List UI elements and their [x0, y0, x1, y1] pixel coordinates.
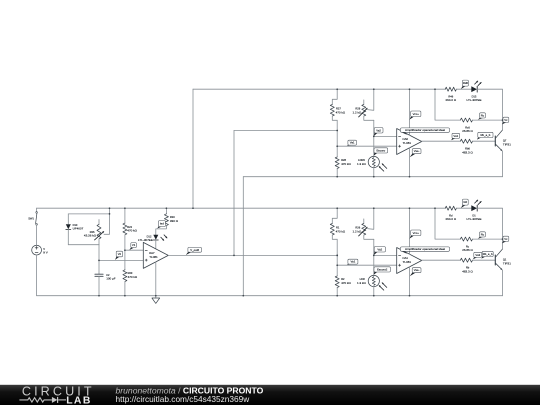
op-amp OA7 TL081: [143, 242, 168, 268]
svg-text:Amplificador operacional ideal: Amplificador operacional ideal: [405, 128, 445, 132]
wire Va2 to inverting input: [374, 135, 397, 137]
svg-text:483.3 Ω: 483.3 Ω: [462, 270, 473, 274]
wire Vcc drop: [409, 208, 411, 254]
diode D10 UF4007: [67, 214, 69, 224]
svg-text:Vo1: Vo1: [453, 134, 458, 138]
photoresistor LDR6 1.3k: [368, 156, 379, 167]
node flag Vcc+: [410, 116, 414, 119]
svg-text:Rb_a_b: Rb_a_b: [483, 252, 493, 256]
logo resistor-diode squiggle: [19, 398, 52, 402]
node flag V_out6: [186, 252, 191, 255]
resistor R22 470k: [124, 208, 126, 223]
svg-text:Va1: Va1: [350, 141, 355, 145]
node flag Rb_a_b: [481, 256, 485, 258]
wire V_out feed vertical x=235: [233, 131, 235, 256]
resistor R20 330: [165, 208, 167, 214]
svg-text:TIP31: TIP31: [503, 143, 511, 147]
node flag Rc: [478, 118, 483, 120]
svg-text:Amplificador operacional ideal: Amplificador operacional ideal: [405, 247, 445, 251]
wire Va1 to non-inverting input: [337, 264, 397, 266]
svg-text:9 V: 9 V: [43, 250, 48, 254]
wire Va1 vertical: [336, 120, 338, 157]
svg-text:264.0 Ω: 264.0 Ω: [446, 98, 457, 102]
wire R20 to D12: [156, 226, 167, 235]
LED D13 LTL-307EE: [471, 86, 477, 92]
svg-text:26.86 Ω: 26.86 Ω: [462, 129, 473, 133]
svg-text:TL081: TL081: [149, 255, 158, 259]
node flag Rd6: [461, 86, 466, 89]
svg-text:470 kΩ: 470 kΩ: [336, 110, 346, 114]
resistor Rc6 26.86: [435, 89, 460, 120]
resistor R46 264.0: [444, 88, 446, 90]
op-amp OA1 TL081: [397, 248, 422, 274]
svg-text:470 kΩ: 470 kΩ: [341, 162, 351, 166]
node flag led: [157, 226, 161, 228]
node flag Rb_a_b: [477, 137, 481, 139]
ground symbol: [155, 296, 157, 298]
LED D12 LTL-307EE: [153, 235, 158, 240]
svg-text:LTL-307EE: LTL-307EE: [467, 217, 482, 221]
resistor R27 470k: [332, 89, 337, 104]
svg-text:470 kΩ: 470 kΩ: [341, 281, 351, 285]
node flag Va2: [374, 133, 378, 136]
footer bar: [0, 385, 540, 405]
resistor Rc 26.86: [435, 208, 460, 239]
wire V2 to non-inverting input: [99, 259, 143, 261]
svg-text:http://circuitlab.com/c54s435z: http://circuitlab.com/c54s435zn369w: [116, 394, 251, 404]
potentiometer R26 43.26k: [98, 220, 100, 225]
node flag V1: [129, 247, 134, 250]
wire main top rail y=208: [37, 207, 446, 209]
svg-text:Vss-: Vss-: [414, 149, 420, 153]
wire channel-A Va1 feed y=130.5: [234, 130, 337, 132]
wire OA7 output V_out6: [168, 254, 337, 256]
svg-text:Vcc+: Vcc+: [413, 112, 420, 116]
svg-text:43.26 kΩ: 43.26 kΩ: [84, 234, 97, 238]
svg-text:UF4007: UF4007: [73, 227, 84, 231]
svg-text:470 kΩ: 470 kΩ: [336, 229, 346, 233]
svg-text:Rd: Rd: [464, 200, 468, 204]
svg-text:Vo3: Vo3: [475, 253, 480, 257]
voltage source V 9V: [32, 245, 42, 255]
wire Va1 vertical: [336, 239, 338, 276]
wire main bottom rail y=295.7: [37, 295, 503, 297]
capacitor C2 100uF: [95, 273, 103, 275]
svg-text:Rd6: Rd6: [463, 81, 469, 85]
svg-text:Vss-: Vss-: [414, 268, 420, 272]
wire vertical supply link x=193: [192, 89, 194, 208]
node flag Vss-: [410, 153, 416, 157]
potentiometer R29 1.2k: [363, 100, 365, 105]
resistor Rb 483.3: [460, 258, 472, 262]
wire channel-A bottom rail y=176.7: [243, 176, 502, 178]
node flag Va1: [347, 264, 351, 265]
wire Vss drop: [409, 267, 411, 296]
node flag Rc: [478, 237, 483, 239]
svg-text:Va1: Va1: [351, 260, 356, 264]
svg-text:Rc: Rc: [481, 113, 485, 117]
svg-text:TL081: TL081: [403, 141, 412, 145]
node flag Vo3: [473, 257, 477, 259]
svg-text:V2: V2: [118, 252, 122, 256]
svg-text:Rc: Rc: [481, 232, 485, 236]
svg-text:Vcc+: Vcc+: [413, 231, 420, 235]
svg-text:Escuro: Escuro: [376, 148, 385, 152]
node flag Escuro: [374, 153, 377, 156]
svg-text:V_out6: V_out6: [190, 248, 199, 252]
svg-text:483.3 Ω: 483.3 Ω: [462, 151, 473, 155]
wire LED to collector node: [477, 89, 503, 120]
svg-text:V1: V1: [132, 243, 136, 247]
wire output to base resistor: [422, 259, 461, 261]
svg-text:330 Ω: 330 Ω: [170, 219, 179, 223]
node flag Vc: [502, 241, 506, 243]
wire Va2 vertical: [373, 120, 375, 156]
wire Vcc drop: [409, 89, 411, 135]
svg-text:LTL-307EE: LTL-307EE: [467, 98, 482, 102]
wire output to base resistor: [422, 140, 461, 142]
junction dots: [336, 207, 338, 209]
node flag V2: [115, 256, 119, 260]
photoresistor LDR 1.3k: [368, 275, 379, 286]
node flag Vss-: [410, 272, 416, 276]
transistor Q7 TIP31: [494, 136, 496, 146]
transistor Q1 TIP31: [494, 255, 496, 265]
resistor R23 470k: [123, 270, 127, 282]
svg-text:264.0 Ω: 264.0 Ω: [446, 217, 457, 221]
wire Va2 to inverting input: [374, 254, 397, 256]
wire top-rail channel-A y=89: [193, 88, 445, 90]
node flag Vo1: [451, 138, 455, 140]
wire channel-A ground drop x=243.3: [242, 177, 244, 296]
svg-text:1.3 kΩ: 1.3 kΩ: [357, 162, 367, 166]
node flag Vc: [502, 122, 506, 124]
svg-text:Rb_a_b: Rb_a_b: [480, 133, 490, 137]
node flag Va1: [347, 145, 351, 146]
wire V1 to inverting input: [125, 249, 143, 251]
svg-text:TIP31: TIP31: [503, 262, 511, 266]
wire OA7 Vss to ground rail: [155, 262, 157, 296]
resistor Rb6 483.3: [460, 139, 472, 143]
svg-text:LAB: LAB: [66, 395, 92, 405]
label amplificador operacional ideal: [401, 251, 407, 254]
junction dots: [336, 88, 338, 90]
svg-text:Escuro2: Escuro2: [377, 267, 388, 271]
label amplificador operacional ideal: [401, 132, 407, 135]
wire Va1 to non-inverting input: [337, 145, 397, 147]
LED D1 LTL-307EE: [471, 205, 477, 211]
svg-text:100 µF: 100 µF: [106, 277, 116, 281]
wire R22-R23 junction: [124, 235, 126, 270]
svg-text:TL081: TL081: [403, 260, 412, 264]
node flag Vcc+: [410, 235, 414, 238]
svg-text:Va2: Va2: [376, 128, 381, 132]
switch SW1: [36, 208, 38, 211]
resistor R28 470k: [335, 157, 339, 169]
wire D10 loop top edge: [68, 213, 109, 215]
svg-text:Va2: Va2: [377, 247, 382, 251]
op-amp OA6 TL081: [397, 129, 422, 155]
junction dots left section: [109, 207, 111, 209]
resistor R1 470k: [332, 208, 337, 223]
svg-text:26.86 Ω: 26.86 Ω: [462, 248, 473, 252]
wire pot wiper feed x=109.5: [104, 208, 110, 234]
resistor Rd 264.0: [444, 207, 446, 209]
svg-text:led: led: [160, 222, 164, 226]
wire LED to collector node: [477, 208, 503, 239]
svg-text:470 kΩ: 470 kΩ: [127, 229, 137, 233]
resistor R2 470k: [335, 276, 339, 288]
node flag Va2: [374, 252, 378, 255]
node flag Rd: [461, 205, 466, 208]
node flag Escuro2: [374, 272, 377, 275]
wire D10 loop bottom edge: [68, 244, 99, 246]
svg-text:SW1: SW1: [28, 217, 34, 221]
wire pot wiper from rail: [367, 208, 373, 229]
svg-text:470 kΩ: 470 kΩ: [128, 275, 138, 279]
svg-text:1.3 kΩ: 1.3 kΩ: [357, 281, 367, 285]
wire R26 to C2 branch: [98, 245, 100, 274]
wire Vss drop: [409, 148, 411, 177]
svg-text:LTL-307EE: LTL-307EE: [138, 238, 153, 242]
wire Va2 vertical: [373, 239, 375, 275]
svg-text:1.2 kΩ: 1.2 kΩ: [352, 110, 362, 114]
svg-text:1.2 kΩ: 1.2 kΩ: [352, 229, 362, 233]
wire pot wiper from rail: [367, 89, 373, 110]
potentiometer R26 1.2k: [363, 219, 365, 224]
